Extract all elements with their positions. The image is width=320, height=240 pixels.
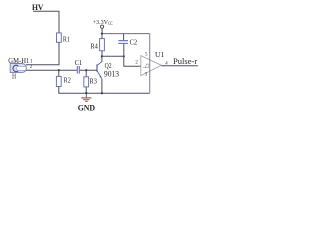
transistor Q2 collector diagonal — [97, 62, 102, 66]
svg-text:U1: U1 — [155, 50, 164, 59]
wire collector node to C2 node — [102, 55, 124, 57]
svg-text:C1: C1 — [75, 58, 83, 67]
ground symbol — [81, 97, 91, 99]
GM tube anode pill — [17, 66, 27, 70]
svg-text:GND: GND — [78, 103, 96, 112]
svg-text:R4: R4 — [90, 42, 98, 51]
transistor Q2 emitter diagonal — [97, 71, 102, 78]
node collector junction — [101, 55, 103, 57]
U1 hysteresis symbol — [143, 64, 150, 68]
wire C2 bottom lead — [123, 44, 125, 56]
wire R2 bottom to ground bus — [59, 87, 150, 94]
node junction R2 — [58, 69, 60, 71]
wire power down — [101, 28, 103, 33]
wire jog down to U1 input — [124, 56, 141, 66]
resistor R1 — [57, 33, 62, 42]
svg-text:H: H — [12, 73, 16, 81]
wire collector up to R4 node — [101, 56, 103, 61]
svg-text:C2: C2 — [130, 38, 138, 47]
GM tube cathode arc — [13, 65, 18, 71]
power bus to U1 — [102, 33, 150, 35]
wire R4 bottom lead — [101, 51, 103, 57]
wire R2 top lead — [58, 70, 60, 76]
resistor R3 — [84, 77, 89, 87]
wire R4 top lead — [101, 34, 103, 39]
svg-text:HV: HV — [32, 3, 44, 12]
node emitter-ground — [101, 92, 103, 94]
wire R3 top lead — [85, 70, 87, 77]
svg-text:R3: R3 — [90, 76, 98, 85]
wire R3 bottom lead — [85, 87, 87, 93]
capacitor C2 plates — [118, 41, 128, 44]
transistor Q2 emitter arrowhead — [100, 76, 102, 79]
node junction R3 — [85, 69, 87, 71]
wire emitter down to ground — [101, 78, 103, 93]
svg-text:R1: R1 — [63, 35, 70, 44]
capacitor C1 plates — [77, 66, 79, 74]
wire tube cathode bus to C1 — [26, 69, 77, 71]
power terminal circle — [101, 25, 104, 28]
wire C1 right to Q2 base — [80, 69, 97, 71]
transistor Q2 base bar — [96, 64, 98, 71]
svg-text:+3.3V: +3.3V — [93, 19, 109, 26]
wire U1 output — [161, 65, 197, 67]
wire R1 bottom to tube anode — [26, 42, 59, 64]
U1 power/ground vertical line — [149, 34, 151, 94]
resistor R4 — [100, 39, 105, 51]
svg-text:R2: R2 — [64, 76, 71, 85]
svg-text:9013: 9013 — [104, 70, 119, 79]
node R4 top — [101, 33, 103, 35]
op-amp U1 triangle — [141, 56, 162, 76]
svg-text:CC: CC — [108, 22, 112, 27]
GM tube GM-H1 body — [10, 64, 26, 73]
svg-text:Pulse-r: Pulse-r — [173, 57, 198, 66]
ground stem — [85, 93, 87, 97]
resistor R2 — [56, 76, 61, 86]
wire HV to R1 top — [33, 11, 59, 33]
node C2 bottom junction — [123, 55, 125, 57]
wire C2 top lead — [123, 34, 125, 41]
ground node dot — [85, 92, 87, 94]
